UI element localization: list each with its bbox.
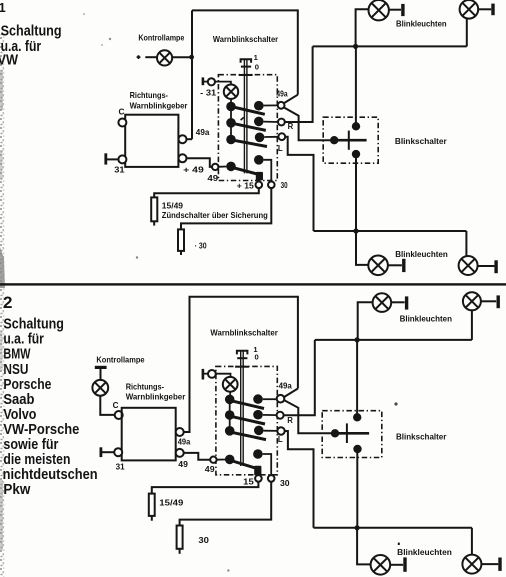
plus terminal of Kontrollampe bbox=[137, 55, 141, 59]
contact dot row1 left bbox=[226, 102, 236, 112]
contact dot row2 right bbox=[254, 117, 264, 127]
terminal 30 of Warnblinkschalter (circuit 2) bbox=[268, 475, 275, 482]
terminal bar upper-left (circuit 2) bbox=[202, 369, 205, 380]
lever of Blinkschalter bbox=[334, 139, 366, 142]
svg-text:u.a. für: u.a. für bbox=[3, 332, 44, 348]
actuator position bar 1 (circuit 2) bbox=[237, 351, 248, 355]
svg-text:0: 0 bbox=[255, 353, 259, 362]
svg-text:Blinkschalter: Blinkschalter bbox=[395, 137, 448, 146]
lamp Blinkleuchte top-right (circuit 1) bbox=[460, 0, 479, 19]
left page-edge scan texture upper bbox=[0, 34, 5, 287]
svg-text:Blinkleuchten: Blinkleuchten bbox=[395, 250, 448, 259]
bus wire joining left contacts (circuit 2) bbox=[229, 397, 231, 431]
svg-text:30: 30 bbox=[198, 536, 209, 545]
svg-text:Warnblinkgeber: Warnblinkgeber bbox=[130, 101, 189, 110]
svg-text:49: 49 bbox=[205, 465, 216, 474]
lever tick bbox=[348, 131, 350, 150]
wire +15 to fuse 15/49 bbox=[154, 188, 259, 197]
wire bus to top-right lamp bbox=[466, 18, 468, 46]
wire lamp to contact column bbox=[230, 99, 232, 103]
terminal 49a of relay bbox=[179, 135, 187, 143]
dark streak near divider left edge bbox=[0, 247, 5, 288]
ground bar above Kontrollampe bbox=[95, 366, 107, 369]
svg-text:BMW: BMW bbox=[3, 347, 30, 363]
terminal bar bottom-left lamp bbox=[402, 259, 405, 272]
lever tick (circuit 2) bbox=[346, 423, 348, 443]
wire top lamp bus (circuit 2) bbox=[315, 339, 472, 341]
wire terminal into lamp bbox=[216, 374, 231, 377]
svg-text:nichtdeutschen: nichtdeutschen bbox=[3, 467, 98, 483]
svg-text:Pkw: Pkw bbox=[3, 482, 31, 498]
wire ground to 31 bbox=[102, 451, 114, 453]
svg-text:15/49: 15/49 bbox=[159, 499, 184, 508]
actuator position bar 0 (circuit 2) bbox=[237, 357, 247, 359]
contact dot row2 left bbox=[226, 118, 236, 128]
svg-text:R: R bbox=[287, 416, 293, 425]
svg-text:30: 30 bbox=[280, 479, 290, 488]
junction dot at kontrollampe / 49a riser bbox=[189, 55, 194, 60]
wire top lamp bus bbox=[313, 45, 467, 47]
svg-text:L: L bbox=[278, 144, 283, 153]
wire junction to Blinkschalter top contact bbox=[355, 46, 357, 126]
wire lamp to bar bbox=[389, 9, 401, 11]
wire lamp to bar bbox=[478, 8, 491, 10]
wire relay 49 to Warnblinkschalter 49 bbox=[184, 453, 210, 460]
svg-text:2: 2 bbox=[3, 293, 12, 312]
lamp Kontrollampe (circuit 2) bbox=[92, 380, 108, 396]
contact dot Blinkschalter top (circuit 2) bbox=[353, 413, 361, 421]
wire 15 to fuse 15/49 (circuit 2) bbox=[152, 482, 259, 494]
lamp Blinkleuchte upper-right (circuit 2) bbox=[463, 292, 481, 310]
terminal 49 of Warnblinkschalter bbox=[212, 164, 218, 170]
actuator position bar 1 bbox=[241, 59, 252, 63]
wire R to top lamp bus (circuit 2) bbox=[284, 340, 315, 415]
svg-text:1: 1 bbox=[0, 0, 6, 15]
svg-text:49a: 49a bbox=[276, 89, 288, 98]
contact dot row1 left (circuit 2) bbox=[225, 395, 235, 405]
svg-text:Richtungs-: Richtungs- bbox=[126, 383, 165, 392]
fuse 30 bottom stub bbox=[180, 251, 182, 255]
contact dot row3 right (circuit 2) bbox=[254, 426, 264, 436]
lamp Blinkleuchte top-left (circuit 1) bbox=[369, 0, 389, 20]
terminal 31 of relay bbox=[118, 155, 126, 163]
guide tick on shaft bbox=[241, 117, 244, 120]
ground bar at relay terminal 31 bbox=[104, 153, 107, 164]
terminal 31 of relay (circuit 2) bbox=[114, 448, 122, 456]
wire bar to circle bbox=[204, 373, 208, 375]
svg-text:15: 15 bbox=[243, 477, 254, 486]
contact dot bottom left bbox=[226, 162, 236, 172]
junction dot lower bus (circuit 2) bbox=[355, 525, 360, 530]
wire junction to Blinkschalter top contact (circuit 2) bbox=[356, 340, 358, 417]
junction dot top bus bbox=[353, 44, 358, 49]
terminal bar lower-left lamp (circuit 2) bbox=[403, 557, 406, 571]
svg-text:Warnblinkschalter: Warnblinkschalter bbox=[210, 328, 278, 338]
wire lamp to bar bbox=[390, 564, 403, 566]
svg-text:R: R bbox=[288, 122, 294, 131]
wire bus to top-left lamp bbox=[356, 9, 369, 46]
bridge contact row2 (circuit 2) bbox=[226, 415, 265, 424]
solid segment on housing top edge (circuit 2) bbox=[235, 366, 249, 368]
svg-text:0: 0 bbox=[255, 62, 259, 71]
contact dot row2 left (circuit 2) bbox=[225, 410, 235, 420]
wire row3 to terminal L bbox=[264, 136, 278, 138]
left page-edge scan texture lower bbox=[0, 287, 5, 577]
wire Blinkschalter bottom to lower bus bbox=[355, 154, 357, 231]
svg-text:C: C bbox=[119, 107, 125, 116]
svg-text:49a: 49a bbox=[178, 438, 191, 447]
svg-text:30: 30 bbox=[281, 181, 289, 190]
terminal -31 bar bbox=[202, 77, 205, 85]
wire bus to bottom-right lamp bbox=[465, 231, 467, 256]
contact dot row2 right (circuit 2) bbox=[253, 410, 263, 420]
wire 30 to fuse 30 (circuit 2) bbox=[180, 482, 272, 526]
svg-text:· 30: · 30 bbox=[195, 242, 208, 251]
lamp Kontrollampe (circle with X) bbox=[157, 50, 172, 65]
svg-text:die meisten: die meisten bbox=[3, 452, 70, 468]
svg-text:49a: 49a bbox=[279, 381, 293, 390]
contact dot Blinkschalter left bbox=[330, 136, 338, 144]
fuse 15/49 (circuit 2) bbox=[149, 494, 155, 516]
svg-text:Kontrollampe: Kontrollampe bbox=[138, 34, 184, 43]
svg-text:Richtungs-: Richtungs- bbox=[130, 91, 169, 100]
lamp Blinkleuchte upper-left (circuit 2) bbox=[373, 293, 392, 312]
terminal L of Warnblinkschalter bbox=[278, 133, 285, 140]
svg-text:31: 31 bbox=[116, 462, 126, 471]
contact dot row4 right bbox=[254, 155, 264, 165]
svg-text:Blinkschalter: Blinkschalter bbox=[396, 433, 447, 442]
svg-text:+ 49: + 49 bbox=[183, 166, 204, 175]
dash-dot housing Blinkschalter (circuit 1) bbox=[323, 117, 378, 163]
contact dot row3 left bbox=[226, 135, 236, 145]
wire relay 49a to riser bbox=[186, 138, 192, 140]
wire row4 to terminal 30 bbox=[264, 160, 272, 182]
wire Blinkschalter bottom to lower bus (circuit 2) bbox=[356, 449, 358, 528]
terminal L of Warnblinkschalter (circuit 2) bbox=[277, 427, 284, 434]
svg-text:Blinkleuchten: Blinkleuchten bbox=[400, 314, 452, 323]
wire lamp to bar bbox=[478, 265, 495, 267]
fuse bottom stub bbox=[151, 516, 153, 521]
terminal 15 of Warnblinkschalter (circuit 2) bbox=[255, 475, 262, 482]
wire lower lamp bus bbox=[314, 230, 467, 232]
wire diagonal into terminal 49a of Warnblinkschalter bbox=[284, 95, 298, 104]
fuse bottom stub bbox=[179, 549, 181, 554]
terminal bar bottom-right lamp bbox=[494, 260, 497, 273]
wire lamp to bar bbox=[481, 300, 496, 302]
dash-dot housing Blinkschalter (circuit 2) bbox=[322, 411, 382, 458]
svg-text:L: L bbox=[278, 435, 283, 444]
terminal +49 of relay bbox=[179, 154, 187, 162]
terminal bar upper-left lamp (circuit 2) bbox=[405, 296, 408, 309]
svg-text:Warnblinkschalter: Warnblinkschalter bbox=[213, 34, 279, 44]
scan specks bbox=[109, 38, 111, 40]
wire bus to upper-left lamp (circuit 2) bbox=[358, 302, 373, 340]
terminal R of Warnblinkschalter (circuit 2) bbox=[277, 412, 284, 419]
svg-text:15/49: 15/49 bbox=[162, 201, 184, 210]
switch actuator shaft bbox=[244, 59, 247, 174]
wire relay +49 to warnblinkschalter 49 bbox=[187, 158, 213, 167]
svg-text:1: 1 bbox=[254, 53, 259, 62]
wire diagonal into terminal 49a (circuit 2) bbox=[284, 389, 298, 398]
svg-text:Kontrollampe: Kontrollampe bbox=[96, 356, 145, 365]
terminal bar upper-right lamp (circuit 2) bbox=[497, 295, 500, 308]
bridge contact row1 (circuit 2) bbox=[226, 400, 264, 409]
wire lamp to bar bbox=[481, 563, 498, 565]
svg-text:Blinkleuchten: Blinkleuchten bbox=[396, 19, 447, 28]
svg-text:Schaltung: Schaltung bbox=[3, 317, 64, 333]
svg-text:VW: VW bbox=[0, 52, 18, 68]
lamp Blinkleuchte lower-right (circuit 2) bbox=[462, 555, 481, 574]
dash-dot housing of Warnblinkschalter bbox=[218, 75, 277, 181]
bus wire joining left contacts bbox=[230, 104, 232, 140]
wire 49 to bottom contact (circuit 2) bbox=[217, 459, 225, 461]
svg-text:Saab: Saab bbox=[3, 392, 34, 408]
lamp Blinkleuchte bottom-right (circuit 1) bbox=[459, 256, 478, 275]
wire row3 to terminal L (circuit 2) bbox=[264, 430, 278, 432]
wire bar to -31 circle bbox=[204, 81, 208, 83]
terminal bar lower-right lamp (circuit 2) bbox=[498, 558, 501, 571]
svg-text:Porsche: Porsche bbox=[3, 377, 51, 393]
svg-text:31: 31 bbox=[114, 165, 125, 174]
wire bus to lower-left lamp (circuit 2) bbox=[357, 528, 371, 565]
contact dot row3 left (circuit 2) bbox=[225, 426, 235, 436]
divider line between circuit 1 and circuit 2 bbox=[0, 283, 506, 285]
svg-text:49: 49 bbox=[178, 460, 188, 469]
svg-text:Blinkleuchten: Blinkleuchten bbox=[397, 548, 452, 557]
solid segment on housing top edge bbox=[239, 74, 253, 76]
terminal +15 of Warnblinkschalter bbox=[255, 182, 262, 189]
wire lamp to junction bbox=[172, 56, 191, 58]
terminal 49 of Warnblinkschalter (circuit 2) bbox=[210, 457, 216, 463]
wire 30 to fuse 30 bbox=[181, 188, 271, 229]
wire lower lamp bus (circuit 2) bbox=[314, 527, 472, 529]
wire lamp to contact column (circuit 2) bbox=[229, 392, 231, 396]
wire bus to bottom-left lamp bbox=[356, 231, 368, 265]
svg-text:Warnblinkgeber: Warnblinkgeber bbox=[126, 392, 186, 401]
dash-dot housing of Warnblinkschalter (circuit 2) bbox=[216, 366, 277, 474]
wire R to top lamp bus bbox=[285, 46, 313, 122]
fuse 15/49 bbox=[151, 197, 157, 221]
bridge contact row2 bbox=[228, 122, 266, 130]
darker smudges on edge strip bbox=[0, 70, 3, 110]
svg-text:49: 49 bbox=[207, 174, 219, 183]
bridge contact row3 bbox=[228, 139, 267, 146]
wire bus to upper-right lamp (circuit 2) bbox=[471, 310, 473, 340]
wire relay 49a up and over to Warnblinkschalter 49a bbox=[184, 297, 298, 432]
contact dot row3 right bbox=[255, 133, 265, 143]
wire plus to lamp bbox=[145, 56, 157, 58]
terminal R of Warnblinkschalter bbox=[278, 119, 285, 126]
wire row1 to terminal 49a bbox=[264, 104, 278, 106]
contact dot Blinkschalter bottom (circuit 2) bbox=[353, 445, 361, 453]
contact dot Blinkschalter bottom bbox=[352, 150, 360, 158]
switch actuator shaft (circuit 2) bbox=[241, 350, 244, 466]
lamp Blinkleuchte lower-left (circuit 2) bbox=[371, 555, 391, 575]
contact dot bottom left (circuit 2) bbox=[225, 455, 235, 465]
junction dot top bus (circuit 2) bbox=[355, 337, 360, 342]
lever of Blinkschalter (circuit 2) bbox=[335, 432, 369, 435]
svg-text:+ 15: + 15 bbox=[237, 181, 255, 190]
terminal 49 of relay (circuit 2) bbox=[176, 449, 184, 457]
upper-left terminal circle (circuit 2) bbox=[208, 370, 216, 378]
wire 49a terminal to Blinkschalter feed (circuit 2) bbox=[284, 400, 332, 433]
contact dot row4 right (circuit 2) bbox=[253, 449, 263, 459]
wire lamp to bar bbox=[391, 301, 404, 303]
moving contact block at shaft bottom bbox=[256, 172, 263, 181]
wire riser 49a (relay) up left side bbox=[191, 10, 193, 139]
svg-text:C: C bbox=[113, 401, 119, 410]
svg-text:Volvo: Volvo bbox=[3, 407, 36, 423]
fuse 15/49 bottom stub bbox=[153, 221, 155, 225]
junction dot lower bus bbox=[353, 228, 358, 233]
svg-text:Zündschalter über Sicherung: Zündschalter über Sicherung bbox=[162, 211, 268, 220]
svg-text:sowie für: sowie für bbox=[3, 437, 58, 453]
wire bar to lamp bbox=[100, 369, 102, 380]
wire lamp to terminal C bbox=[100, 396, 114, 415]
wire from 49a terminal to Blinkschalter feed bbox=[284, 107, 331, 140]
bridge contact row1 bbox=[228, 106, 265, 115]
wire row2 to terminal R bbox=[264, 121, 278, 123]
wire row2 to terminal R (circuit 2) bbox=[263, 414, 277, 416]
wire 49 to bottom contact bbox=[218, 166, 226, 168]
wire top run to warnblinkschalter 49a bbox=[192, 10, 298, 94]
wire row4 to terminal 30 (circuit 2) bbox=[263, 454, 272, 475]
wire ground to 31 bbox=[107, 158, 118, 160]
bridge contact bottom row (circuit 2) bbox=[226, 459, 260, 469]
contact dot row1 right (circuit 2) bbox=[253, 394, 263, 404]
moving contact block at shaft bottom (circuit 2) bbox=[254, 466, 261, 476]
contact dot Blinkschalter top bbox=[352, 122, 360, 130]
wire L to lower lamp bus (circuit 2) bbox=[285, 431, 314, 528]
speck above label bbox=[398, 543, 400, 545]
svg-text:- 31: - 31 bbox=[200, 88, 217, 97]
wire row1 to terminal 49a (circuit 2) bbox=[263, 398, 277, 400]
terminal bar top-right lamp bbox=[491, 4, 494, 16]
terminal -31 of Warnblinkschalter bbox=[208, 78, 215, 85]
svg-text:49a: 49a bbox=[196, 128, 210, 137]
svg-text:VW-Porsche: VW-Porsche bbox=[3, 422, 79, 438]
pilot lamp inside Warnblinkschalter bbox=[224, 85, 238, 99]
pilot lamp inside Warnblinkschalter (circuit 2) bbox=[223, 377, 238, 392]
actuator position bar 0 bbox=[241, 66, 251, 68]
fuse 30 (circuit 2) bbox=[177, 526, 183, 549]
svg-text:NSU: NSU bbox=[3, 362, 28, 378]
terminal 49a of relay (circuit 2) bbox=[176, 428, 184, 436]
fuse 30 bbox=[178, 229, 184, 251]
ground bar at relay terminal 31 (circuit 2) bbox=[100, 447, 103, 457]
wire lamp to bar bbox=[388, 264, 402, 266]
wire -31 into lamp bbox=[215, 82, 231, 85]
svg-text:Schaltung: Schaltung bbox=[1, 23, 62, 39]
wire bus to lower-right lamp (circuit 2) bbox=[471, 528, 473, 555]
wire L to lower lamp bus bbox=[285, 137, 313, 231]
bridge contact row3 (circuit 2) bbox=[226, 431, 266, 439]
contact dot Blinkschalter left (circuit 2) bbox=[331, 429, 339, 437]
bridge contact bottom row bbox=[228, 166, 260, 175]
lamp Blinkleuchte bottom-left (circuit 1) bbox=[368, 255, 388, 275]
terminal bar top-left lamp bbox=[401, 4, 404, 16]
contact dot row1 right bbox=[254, 101, 264, 111]
terminal 30 of Warnblinkschalter bbox=[268, 182, 275, 189]
